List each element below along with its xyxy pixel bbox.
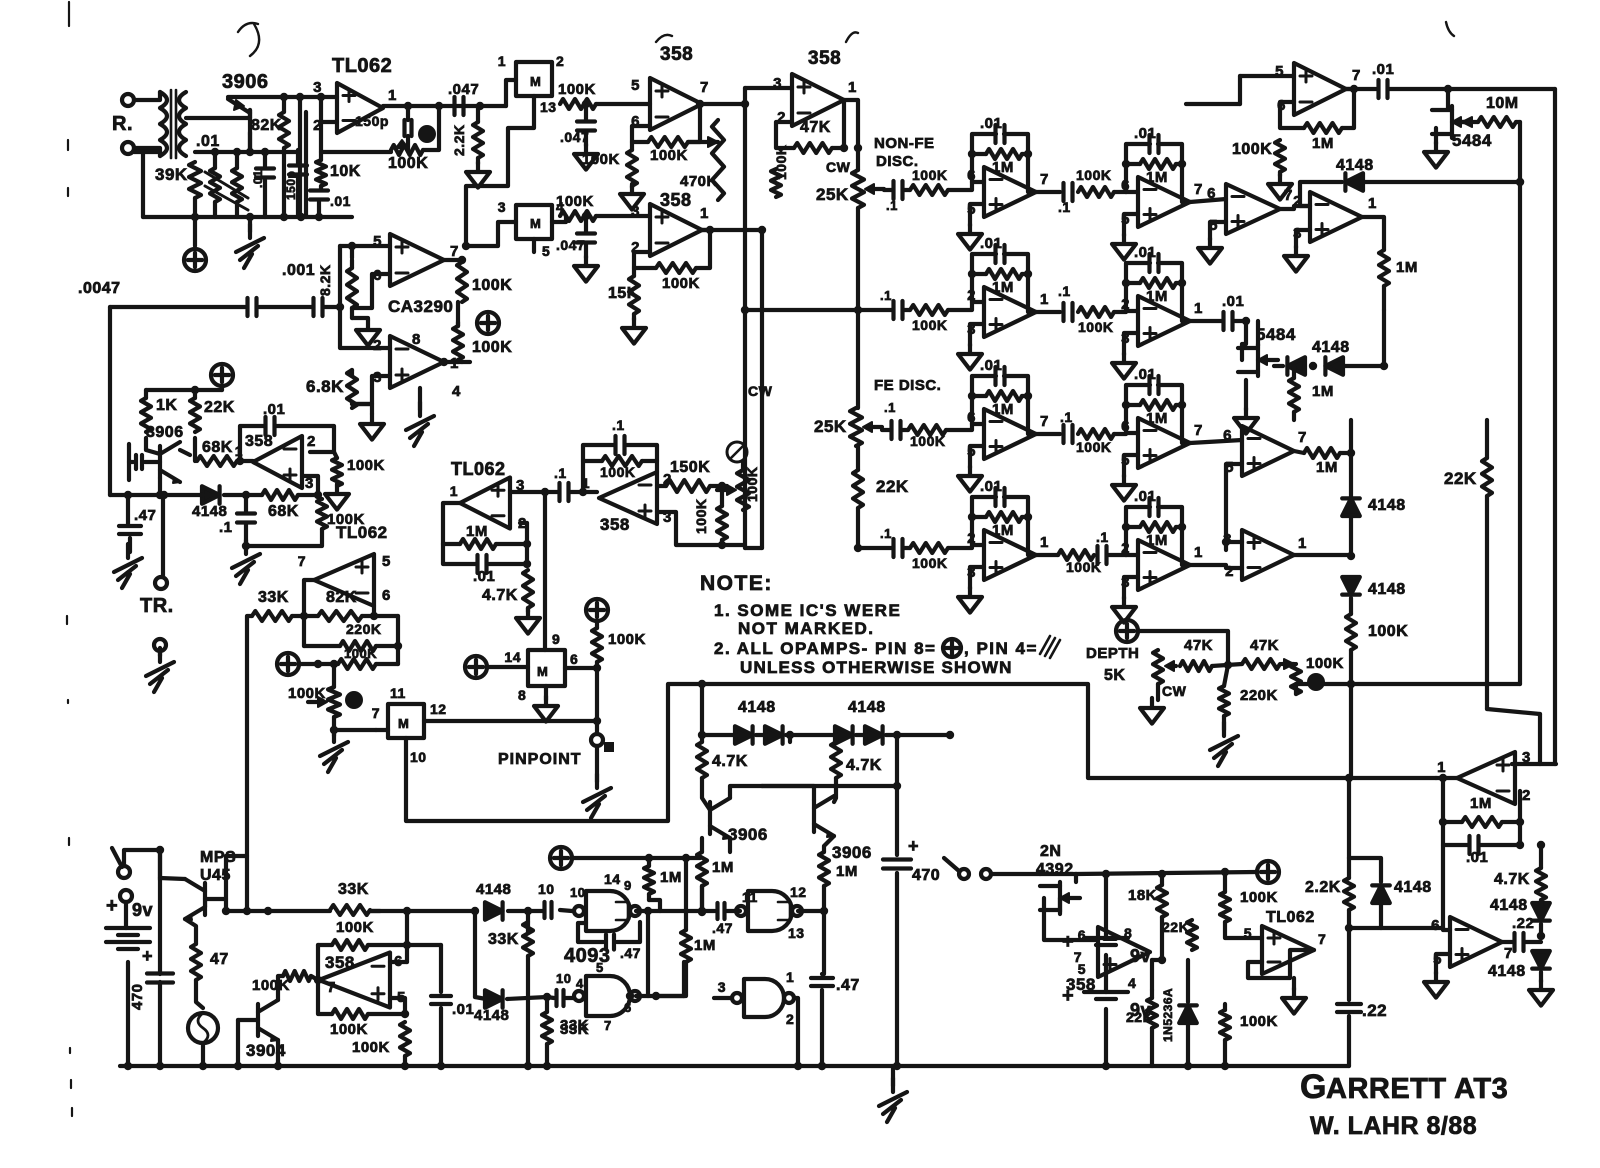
svg-text:1M: 1M — [1396, 259, 1418, 276]
label NON-FE DISC — [874, 135, 935, 170]
pwr pinpoint — [586, 599, 608, 621]
diode r3 up — [1342, 497, 1405, 516]
svg-text:7: 7 — [372, 705, 380, 721]
cap Q2 base — [129, 444, 160, 480]
wire 4016B leads — [462, 216, 566, 252]
zener 1N5236A — [1161, 988, 1197, 1042]
wire u6 plus — [657, 512, 726, 549]
svg-text:.01: .01 — [980, 115, 1002, 132]
svg-text:.1: .1 — [1096, 529, 1109, 545]
svg-text:100K: 100K — [744, 467, 760, 502]
svg-text:1M: 1M — [1470, 795, 1492, 812]
svg-text:7: 7 — [1074, 949, 1082, 965]
svg-text:100K: 100K — [910, 433, 945, 449]
svg-text:82K: 82K — [326, 589, 357, 606]
opamp U11 TL062 — [1244, 925, 1327, 974]
terminal pinpoint — [591, 734, 614, 752]
svg-text:NON-FE: NON-FE — [874, 135, 935, 152]
opamp R1C — [1207, 184, 1293, 234]
svg-text:9: 9 — [552, 631, 560, 647]
svg-text:.01: .01 — [1222, 293, 1244, 310]
svg-text:1M: 1M — [466, 523, 488, 540]
feedback loop U1 — [321, 106, 439, 152]
svg-text:4148: 4148 — [1490, 897, 1528, 914]
wire diode row — [698, 731, 954, 739]
wire 3904b — [311, 976, 322, 984]
label TL062 u7 — [336, 523, 388, 542]
res 33K bl3 — [542, 1012, 589, 1044]
wire u9b — [626, 911, 684, 1000]
svg-text:100K: 100K — [352, 1039, 390, 1056]
res 47K b — [1242, 637, 1280, 669]
note line1 — [714, 601, 901, 620]
svg-text:100K: 100K — [1076, 167, 1111, 183]
svg-text:9v: 9v — [132, 900, 153, 920]
cap .01 r2out — [1190, 293, 1250, 330]
wire u10 — [1044, 898, 1098, 940]
res 150K — [666, 459, 710, 492]
svg-text:.01: .01 — [980, 478, 1002, 495]
diode 4148 bot — [1488, 951, 1550, 980]
svg-text:470: 470 — [912, 867, 940, 884]
svg-text:10M: 10M — [1486, 95, 1519, 112]
pot 25K fe — [748, 383, 882, 446]
opamp R1D — [1293, 192, 1377, 242]
pot arrow u4a — [688, 137, 718, 147]
wires u8 — [318, 941, 441, 980]
label 358 u3 — [245, 433, 273, 450]
svg-text:2: 2 — [786, 1011, 794, 1027]
cap .01 top — [1372, 61, 1394, 98]
svg-text:8.2K: 8.2K — [317, 264, 333, 296]
svg-text:.01: .01 — [1372, 61, 1394, 78]
boundary loop — [406, 684, 1436, 821]
wire U1 out — [383, 102, 506, 110]
svg-text:358: 358 — [325, 953, 355, 972]
cap u9b in — [547, 971, 584, 1006]
svg-text:5484: 5484 — [1452, 131, 1492, 150]
wire 3906a — [698, 680, 762, 852]
svg-text:10: 10 — [538, 881, 555, 897]
wire 68Ka — [180, 450, 253, 465]
res 220K — [340, 621, 381, 651]
diode 4148 r1 — [1336, 157, 1374, 191]
svg-text:.0047: .0047 — [78, 280, 121, 297]
pot depth — [1153, 650, 1187, 699]
svg-text:4148: 4148 — [1394, 879, 1432, 896]
cap .01 u12 — [1466, 836, 1488, 866]
label TL062 u6b — [451, 459, 506, 479]
svg-text:6: 6 — [1431, 917, 1440, 934]
res 100K r4 — [910, 543, 948, 571]
svg-text:5484: 5484 — [1256, 325, 1296, 344]
svg-text:82K: 82K — [251, 117, 282, 134]
op-amp U6b TL062 — [450, 477, 527, 532]
wire 47kb — [790, 735, 836, 742]
svg-text:1: 1 — [848, 79, 857, 96]
svg-text:33K: 33K — [560, 1017, 589, 1034]
resistor 22K — [190, 398, 200, 432]
svg-text:68K: 68K — [202, 439, 233, 456]
wire 47 — [185, 919, 203, 1008]
opamp U12 left — [1437, 749, 1531, 804]
wire fet r2 — [1242, 321, 1258, 360]
resistor 2.2K — [473, 122, 483, 158]
svg-text:7: 7 — [1194, 181, 1203, 198]
svg-text:100K: 100K — [650, 147, 688, 164]
svg-text:47K: 47K — [1250, 637, 1279, 654]
wire r4 — [858, 545, 972, 548]
filter R3A — [958, 357, 1049, 492]
svg-text:100K: 100K — [472, 339, 512, 356]
svg-text:3: 3 — [718, 979, 726, 995]
svg-text:22K: 22K — [1126, 1009, 1153, 1025]
resistor 15K — [629, 276, 639, 314]
cap .1 r4 — [880, 526, 903, 557]
wire 1m u6b — [443, 540, 531, 548]
wire depth join — [1296, 680, 1520, 688]
wires osc cluster — [195, 97, 321, 217]
svg-text:14: 14 — [504, 649, 521, 665]
svg-text:TL062: TL062 — [1266, 909, 1315, 926]
svg-text:2: 2 — [1522, 787, 1531, 804]
gnd 15K — [622, 268, 646, 344]
cap 470b — [883, 836, 940, 884]
res 100K u6c — [693, 499, 727, 540]
cap 10 bl — [538, 881, 585, 918]
cap .01 u3 — [266, 417, 275, 435]
svg-text:14: 14 — [604, 871, 621, 887]
svg-text:.01: .01 — [473, 568, 495, 585]
svg-text:4148: 4148 — [1336, 157, 1374, 174]
svg-text:M: M — [398, 716, 409, 731]
svg-text:100K: 100K — [1076, 439, 1111, 455]
gnd a — [574, 100, 598, 170]
wire batteries — [1102, 870, 1110, 1070]
gnd 2.2K — [466, 158, 490, 188]
left tall wire — [108, 307, 112, 495]
wire mps — [160, 856, 247, 915]
filter R2A — [958, 235, 1049, 370]
svg-text:.1: .1 — [886, 198, 898, 213]
res 100K 3904 — [252, 971, 311, 994]
res 100K u6 — [600, 456, 642, 480]
resistor 47K — [794, 119, 832, 153]
svg-text:7: 7 — [327, 979, 336, 996]
cap .1 r2 — [880, 288, 903, 319]
label 150p — [355, 113, 389, 129]
transistor Q2 3906 — [146, 424, 184, 483]
svg-text:100K: 100K — [582, 151, 620, 168]
svg-text:FE DISC.: FE DISC. — [874, 377, 941, 394]
wire to 4016a — [478, 80, 516, 122]
resistor 10K — [316, 160, 326, 186]
res 100K bl2 — [330, 1009, 368, 1038]
bottom wire br — [818, 1062, 826, 1070]
svg-text:3: 3 — [313, 79, 322, 96]
wire diode mid — [1347, 516, 1355, 560]
wire 33K left — [243, 616, 252, 915]
svg-text:NOTE:: NOTE: — [700, 572, 773, 595]
dot mark — [345, 691, 363, 709]
svg-text:8: 8 — [518, 687, 526, 703]
wire pinpoint — [565, 621, 601, 734]
svg-text:100K: 100K — [330, 1021, 368, 1038]
label TL062 U1 — [332, 55, 392, 77]
svg-text:4: 4 — [452, 383, 461, 400]
svg-text:18K: 18K — [1128, 887, 1157, 904]
left edge wire — [134, 152, 160, 217]
svg-text:4148: 4148 — [192, 503, 227, 520]
resistor 100K fb U1 — [388, 145, 428, 172]
svg-text:W. LAHR 8/88: W. LAHR 8/88 — [1310, 1112, 1477, 1140]
pot 25K nonfe — [816, 159, 884, 208]
fet 2N4392 — [1040, 882, 1080, 914]
svg-text:10K: 10K — [330, 163, 361, 180]
svg-text:4148: 4148 — [848, 699, 886, 716]
bus joins — [722, 306, 858, 548]
svg-text:100K: 100K — [1232, 141, 1272, 158]
capacitor .01c — [251, 169, 274, 189]
svg-text:100K: 100K — [556, 193, 594, 210]
wire nand in — [698, 886, 758, 915]
wire diodes r2 — [1274, 310, 1388, 370]
wire u9a — [560, 907, 700, 915]
svg-text:358: 358 — [245, 433, 273, 450]
label 22K — [204, 399, 235, 416]
svg-text:.1: .1 — [554, 465, 567, 481]
svg-text:.01: .01 — [1134, 488, 1156, 505]
wire input to xfmr — [134, 92, 160, 156]
osc bottom rail — [143, 198, 352, 221]
svg-text:100K: 100K — [608, 631, 646, 648]
svg-text:3: 3 — [498, 199, 506, 215]
svg-text:100K: 100K — [388, 155, 428, 172]
res 1M r1d — [1379, 250, 1418, 286]
wire u8 out — [403, 907, 411, 945]
svg-text:12: 12 — [790, 884, 807, 900]
svg-text:7: 7 — [1504, 945, 1513, 962]
wire 950 to row — [893, 731, 901, 786]
right bus inner — [1516, 122, 1524, 684]
svg-text:2: 2 — [307, 433, 316, 450]
svg-text:68K: 68K — [268, 503, 299, 520]
label 6.8K — [306, 377, 344, 396]
res 33K bl2 — [488, 922, 533, 956]
gnd top — [1268, 172, 1292, 200]
wire br — [1184, 1004, 1229, 1070]
cap .047 b — [556, 234, 595, 254]
label .001 — [282, 262, 315, 279]
svg-text:ARRETT AT3: ARRETT AT3 — [1326, 1073, 1508, 1105]
op-amp U7 TL062 — [298, 553, 391, 606]
wire mid — [110, 478, 262, 499]
svg-text:3906: 3906 — [222, 71, 269, 93]
svg-text:22K: 22K — [204, 399, 235, 416]
wire tr — [114, 491, 142, 588]
svg-text:.1: .1 — [1058, 283, 1071, 299]
wires u7c — [330, 660, 376, 734]
svg-text:2: 2 — [556, 53, 564, 69]
svg-text:4148: 4148 — [1312, 339, 1350, 356]
mid vertical bus B — [760, 230, 764, 548]
pot 100K u6 — [717, 467, 760, 510]
svg-text:.47: .47 — [134, 507, 156, 524]
filter R1B — [1112, 125, 1203, 260]
mid vertical bus A — [743, 104, 747, 548]
svg-text:7: 7 — [1352, 67, 1361, 84]
res 4.7K u6b — [482, 570, 533, 608]
res 22K mid — [853, 470, 909, 508]
note line2 — [738, 619, 874, 638]
svg-text:3906: 3906 — [832, 843, 872, 862]
res 100K r4out — [1346, 614, 1408, 650]
svg-text:.22: .22 — [1512, 915, 1534, 932]
svg-text:358: 358 — [1066, 975, 1096, 994]
coupling R4 — [1036, 529, 1126, 575]
svg-text:+: + — [106, 895, 118, 917]
osc top rail — [228, 93, 337, 122]
gnd r2 — [1234, 366, 1294, 434]
coupling R2 — [1036, 283, 1126, 335]
nand U9C — [736, 884, 807, 941]
svg-text:13: 13 — [788, 925, 805, 941]
res 1M r3out — [1304, 448, 1340, 476]
svg-text:1M: 1M — [1312, 383, 1334, 400]
svg-text:CW: CW — [826, 159, 851, 175]
gnd u11 — [1282, 978, 1306, 1014]
wire right bend — [1349, 684, 1353, 778]
wire sw — [124, 846, 164, 880]
nand U9D — [718, 969, 795, 1027]
gnd depth — [1140, 684, 1164, 724]
diodes 4148 row — [735, 699, 886, 744]
svg-text:TL062: TL062 — [451, 459, 506, 479]
label 1K — [156, 397, 177, 414]
wire u5 out — [844, 100, 862, 170]
svg-text:100K: 100K — [1306, 655, 1344, 672]
svg-text:100K: 100K — [693, 499, 709, 534]
filter R4B — [1112, 488, 1203, 623]
wire u9 fb — [578, 922, 640, 942]
svg-text:.01: .01 — [330, 193, 351, 209]
wire u6b pin3 — [510, 488, 549, 496]
wire 4016A down — [466, 96, 534, 246]
right bus outer — [1553, 89, 1557, 764]
opamp U10 358 — [1066, 925, 1150, 994]
svg-text:13: 13 — [540, 99, 557, 115]
svg-text:4.7K: 4.7K — [482, 587, 518, 604]
battery B1 — [106, 928, 150, 949]
svg-text:4148: 4148 — [1488, 963, 1526, 980]
svg-text:6: 6 — [382, 587, 391, 604]
label 9v sw — [106, 895, 153, 920]
label 68K b — [268, 503, 299, 520]
pot mark U1 — [396, 125, 436, 148]
res 100K u7 — [338, 646, 377, 669]
pwr u7 — [277, 653, 338, 675]
diode 4148 q2 — [192, 486, 227, 520]
wire 22k — [1487, 420, 1540, 764]
wire s2 — [991, 872, 1040, 876]
fet 5484 r2 — [1238, 325, 1296, 376]
res 22K b2 — [1126, 998, 1157, 1028]
label MPS U45 — [200, 849, 236, 884]
transistor MPS U45 — [185, 879, 205, 920]
cap .1 r3 — [884, 400, 901, 439]
svg-text:100K: 100K — [912, 167, 947, 183]
wire fet — [1040, 874, 1076, 912]
transistor 3906 a — [710, 798, 768, 844]
power osc — [184, 217, 206, 271]
res 1M r2 — [1289, 378, 1334, 412]
svg-text:25K: 25K — [816, 185, 849, 204]
svg-text:1: 1 — [1194, 300, 1203, 317]
res 1M a — [697, 852, 734, 886]
svg-text:6: 6 — [624, 1000, 632, 1015]
dot mark depth — [1307, 673, 1325, 691]
label 10K — [330, 163, 361, 180]
svg-text:1M: 1M — [836, 863, 858, 880]
svg-text:.001: .001 — [282, 262, 315, 279]
gnd TR2 — [146, 648, 174, 692]
cap .47 nand — [712, 903, 733, 936]
wire u3 bottom — [232, 495, 322, 584]
arrow 10M — [1462, 117, 1478, 127]
res 1M u9b — [681, 930, 716, 962]
res 100K r3 — [908, 425, 946, 449]
wire u13 out — [1502, 940, 1541, 944]
svg-text:2.2K: 2.2K — [451, 124, 467, 156]
svg-text:TL062: TL062 — [332, 55, 392, 77]
opamp TOP right — [1275, 63, 1361, 115]
svg-text:2.2K: 2.2K — [1305, 879, 1341, 896]
wire cap22 — [1347, 928, 1351, 1066]
gnd bottom — [879, 1066, 907, 1122]
svg-text:.047: .047 — [556, 237, 585, 253]
svg-text:1: 1 — [700, 205, 709, 222]
svg-text:M: M — [530, 216, 541, 231]
svg-text:4148: 4148 — [1368, 581, 1406, 598]
wire u9d — [714, 998, 802, 1070]
transistor Q1 3906 — [222, 71, 269, 152]
wire .0047 line — [110, 303, 344, 311]
svg-text:.01: .01 — [980, 235, 1002, 252]
res 1M topfb — [1304, 123, 1342, 152]
svg-text:100K: 100K — [558, 81, 596, 98]
svg-text:DEPTH: DEPTH — [1086, 645, 1139, 662]
wire 10M — [1424, 89, 1520, 168]
wire 3906 base — [186, 116, 250, 120]
wire bl4 — [545, 997, 549, 1066]
svg-text:100K: 100K — [912, 317, 947, 333]
svg-text:7: 7 — [1040, 413, 1049, 430]
switch S1 — [112, 848, 132, 902]
svg-text:220K: 220K — [1240, 687, 1278, 704]
svg-text:+: + — [142, 946, 153, 966]
svg-text:, PIN 4=: , PIN 4= — [964, 639, 1038, 658]
svg-text:.01: .01 — [1466, 849, 1488, 866]
cap .47 u9 — [606, 935, 641, 962]
svg-text:2: 2 — [373, 337, 382, 354]
terminal TR — [155, 577, 167, 589]
svg-text:4: 4 — [1128, 975, 1136, 991]
svg-text:.1: .1 — [1058, 199, 1071, 215]
wire r1 — [884, 182, 972, 190]
fb box u3 — [240, 426, 334, 461]
svg-text:6: 6 — [570, 651, 578, 667]
svg-text:358: 358 — [808, 48, 841, 69]
